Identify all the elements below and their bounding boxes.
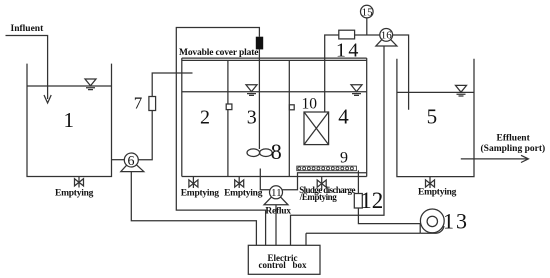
svg-text:Emptying: Emptying <box>181 188 220 198</box>
sludge valve <box>317 177 326 191</box>
reactor water line <box>182 91 367 93</box>
svg-text:15: 15 <box>362 6 374 18</box>
reactor right wall <box>366 58 368 176</box>
svg-text:4: 4 <box>338 105 349 129</box>
stirrer motor <box>256 37 263 50</box>
water level symbol compartment 4 <box>351 85 362 96</box>
tank 5 water line <box>397 91 474 93</box>
suction pipe membrane to pump16 to tank5 <box>325 35 409 112</box>
flow meter 14 <box>339 30 355 39</box>
svg-text:Influent: Influent <box>11 24 45 34</box>
svg-text:Emptying: Emptying <box>224 188 263 198</box>
svg-text:Effluent: Effluent <box>497 134 531 144</box>
air pipe meter12 to blower <box>358 208 420 224</box>
reactor bottom <box>182 176 367 178</box>
wire pump11 to control box <box>275 205 277 246</box>
pump 16 <box>376 29 397 46</box>
pipe pump6 up through meter7 into reactor <box>138 73 192 160</box>
pipe tank1 to pump6 <box>112 159 125 161</box>
blower 13 <box>420 209 444 233</box>
reactor left inner wall <box>181 58 183 176</box>
gauge 15 <box>361 5 374 35</box>
svg-text:16: 16 <box>381 30 393 42</box>
port on divider 2|3 <box>226 104 232 110</box>
tank 1 emptying valve <box>75 177 84 188</box>
pump 11 <box>264 186 288 205</box>
svg-text:5: 5 <box>427 104 438 128</box>
influent arrowhead <box>44 95 51 103</box>
tank 1 water line <box>27 85 112 87</box>
stirrer shaft <box>258 49 260 149</box>
svg-text:10: 10 <box>302 95 318 112</box>
reactor outer frame and wire to control box <box>176 28 265 246</box>
svg-text:Emptying: Emptying <box>55 188 94 198</box>
tank 5 <box>397 59 474 177</box>
electric control box <box>248 245 320 274</box>
wire pump6 to control box <box>131 172 256 246</box>
pump 6 <box>121 153 144 172</box>
air flow meter 12 <box>354 194 362 209</box>
svg-text:6: 6 <box>128 154 135 169</box>
membrane module 10 <box>304 112 329 145</box>
svg-text:13: 13 <box>443 209 469 234</box>
reactor emptying valve B <box>235 177 244 189</box>
divider wall 2|3 <box>227 60 229 176</box>
svg-text:9: 9 <box>340 150 348 167</box>
effluent arrowhead <box>521 155 528 162</box>
tank 5 emptying valve <box>426 177 435 188</box>
aeration diffuser 9 <box>297 166 357 171</box>
tank 1 <box>27 64 112 177</box>
svg-text:/Emptying: /Emptying <box>299 192 337 202</box>
svg-text:2: 2 <box>200 106 210 128</box>
tank 5 water level symbol <box>456 85 467 96</box>
pump11 suction stub <box>260 169 269 190</box>
influent pipe <box>6 36 48 100</box>
svg-text:1: 1 <box>64 108 75 132</box>
svg-text:14: 14 <box>336 40 361 62</box>
wire blower to control box <box>306 233 420 245</box>
water level symbol compartment 3 <box>246 85 257 96</box>
cover plate <box>182 58 367 60</box>
svg-text:3: 3 <box>247 106 257 128</box>
port on divider 3|4 <box>289 105 294 110</box>
wire pump16 to control box <box>291 46 385 245</box>
svg-text:8: 8 <box>271 139 282 164</box>
pump11 discharge line <box>283 173 367 190</box>
svg-text:Reflux: Reflux <box>265 207 291 217</box>
divider wall 3|4 <box>288 60 290 176</box>
reactor emptying valve A <box>189 177 198 189</box>
flow meter 7 <box>149 97 156 111</box>
impeller 8 <box>247 149 272 157</box>
air pipe diffuser to meter 12 <box>357 170 359 193</box>
svg-text:12: 12 <box>360 188 383 213</box>
tank 1 water level symbol <box>85 79 96 90</box>
svg-text:7: 7 <box>134 94 143 113</box>
effluent port and arrow <box>461 158 527 160</box>
svg-text:(Sampling port): (Sampling port) <box>481 143 546 154</box>
svg-text:11: 11 <box>271 187 282 199</box>
svg-text:Movable cover plate: Movable cover plate <box>179 48 258 58</box>
svg-text:Emptying: Emptying <box>418 188 457 198</box>
